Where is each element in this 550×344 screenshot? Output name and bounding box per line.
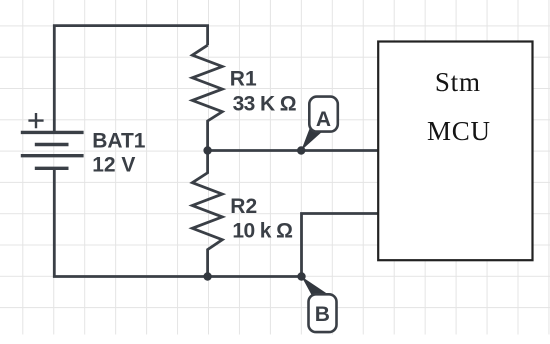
svg-text:R2: R2 [230, 195, 257, 218]
node B junction dot [297, 272, 305, 280]
svg-text:B: B [315, 303, 330, 326]
wire node B up and right to MCU (second pin) [302, 214, 379, 277]
resistor R1 [192, 45, 222, 150]
svg-text:Stm: Stm [435, 67, 481, 97]
node A junction dot [297, 146, 305, 154]
junction dot at bottom of R2 [203, 272, 211, 280]
svg-text:A: A [316, 108, 331, 131]
svg-text:33 K Ω: 33 K Ω [233, 92, 296, 115]
battery BAT1 [21, 113, 84, 168]
wire mid node to MCU (left pin) [208, 149, 379, 152]
svg-text:12 V: 12 V [92, 154, 135, 177]
svg-text:BAT1: BAT1 [92, 130, 146, 153]
svg-text:MCU: MCU [427, 116, 491, 146]
svg-text:R1: R1 [230, 68, 257, 91]
node A callout [301, 97, 338, 151]
node B callout [302, 277, 337, 333]
svg-text:10 k Ω: 10 k Ω [232, 219, 292, 242]
wire from battery + terminal up and across to R1 top [54, 26, 207, 133]
wire from battery - terminal down and across bottom to node B [54, 168, 301, 276]
junction dot between R1 and R2 [203, 146, 211, 154]
resistor R2 [192, 151, 222, 277]
MCU U1 box [378, 42, 532, 261]
